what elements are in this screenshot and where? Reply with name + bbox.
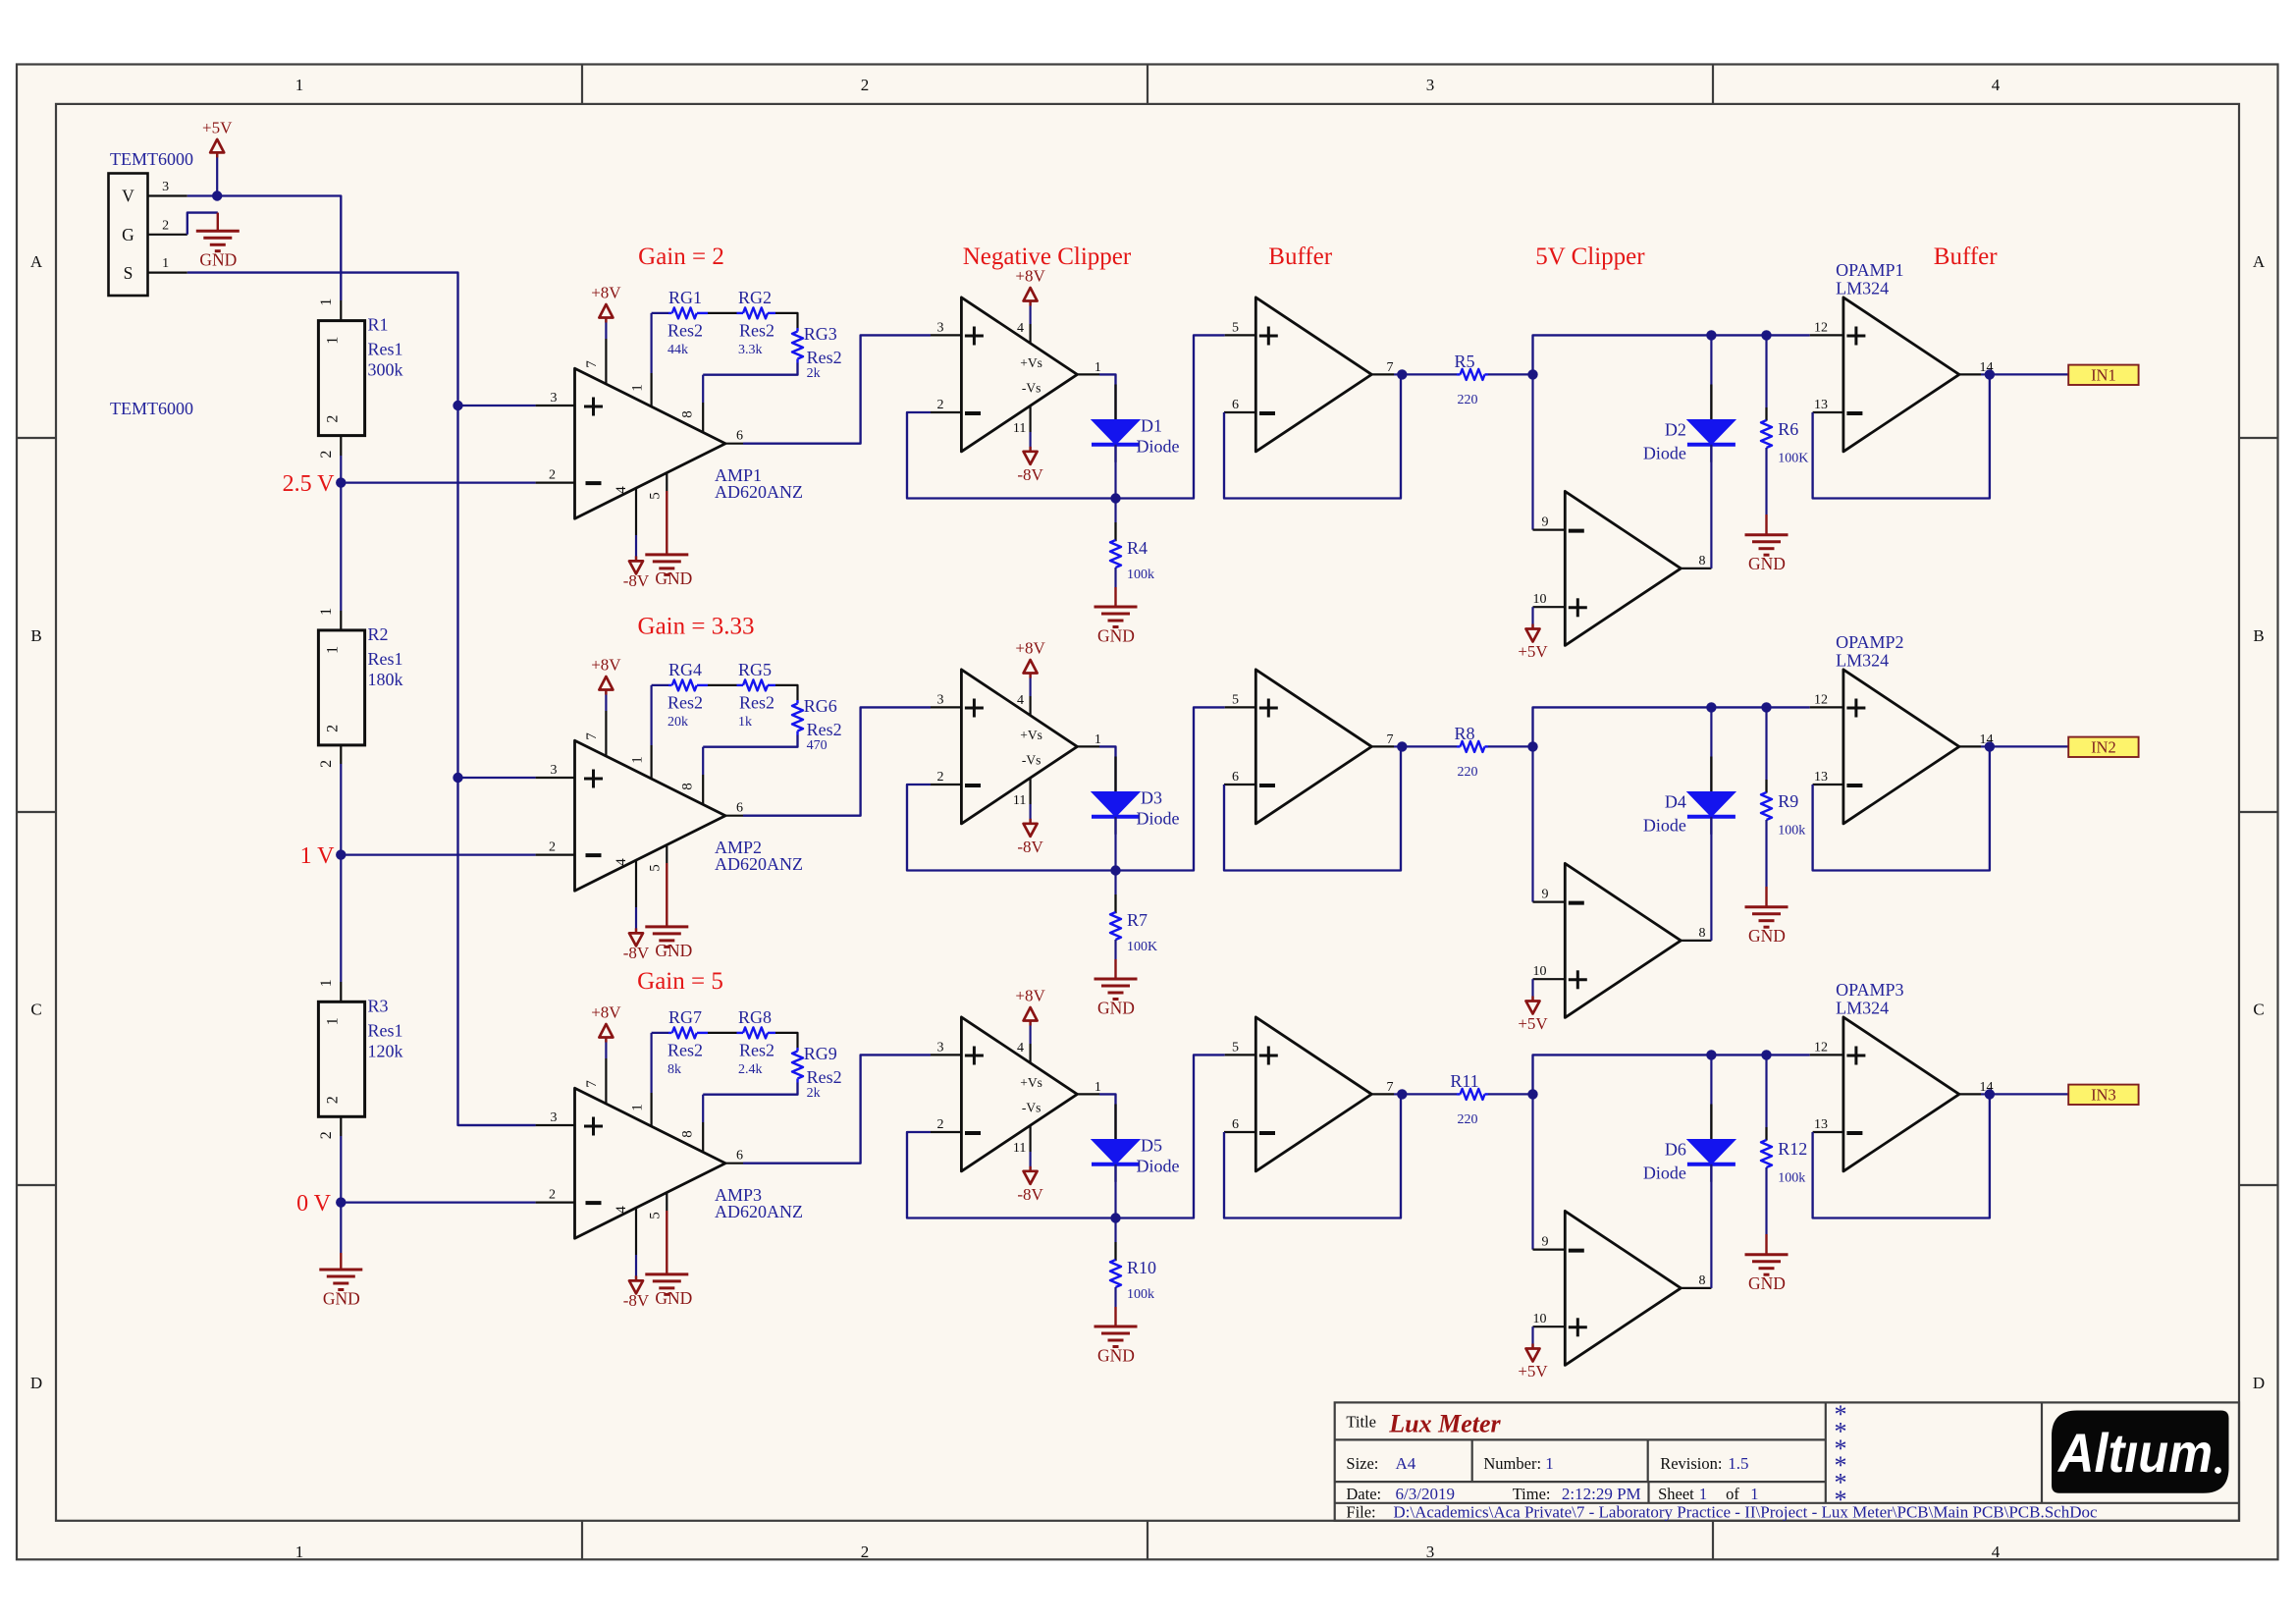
svg-text:4: 4 [1017,693,1024,708]
pin 2 of clipper with feedback [931,1131,961,1133]
svg-text:Res2: Res2 [807,348,842,367]
pin 11 of clipper with -8V [1029,1125,1031,1152]
svg-text:Buffer: Buffer [1268,244,1332,270]
zone column tick 1/2 top [581,65,583,104]
svg-text:R11: R11 [1450,1071,1478,1091]
svg-text:D: D [30,1374,42,1392]
resistor RG3 2k [796,328,798,332]
node 0 V tap [336,1197,346,1207]
svg-text:12: 12 [1814,320,1828,335]
svg-text:D1: D1 [1141,416,1162,436]
resistor R10 100k [1114,1218,1116,1243]
pin 1 of AMP1 [650,373,652,406]
pin 1 of AMP3 [650,1093,652,1126]
pin 10 of 5V clipper with +5V [1533,1326,1566,1327]
svg-text:6: 6 [736,801,743,816]
svg-text:Diode: Diode [1643,816,1686,836]
pin 1 output of clipper [1077,373,1099,375]
svg-text:4: 4 [614,1206,629,1214]
svg-text:+8V: +8V [1015,639,1045,658]
pin 7 of AMP2 with +8V [605,711,607,756]
svg-text:7: 7 [584,732,600,740]
svg-text:GND: GND [655,568,692,588]
svg-text:LM324: LM324 [1836,999,1889,1018]
pin 2 of clipper with feedback [931,411,961,413]
pin 2 of TEMT6000 [148,234,187,236]
svg-text:470: 470 [807,738,828,753]
svg-text:1: 1 [1095,1080,1101,1095]
ground at TEMT6000 [217,213,219,232]
svg-text:2: 2 [937,398,944,412]
diode D4 [1710,707,1712,791]
title block row line 3 [1335,1502,2239,1504]
svg-text:-8V: -8V [1017,838,1043,856]
wire diode to node [1114,445,1116,499]
svg-text:2: 2 [549,840,556,855]
resistor R12 100k [1765,1055,1767,1127]
title block divider number/revision [1647,1439,1649,1482]
svg-text:C: C [2253,1001,2264,1019]
wire S signal bus [187,273,536,1125]
zone column tick 3/4 top [1712,65,1714,104]
svg-text:RG8: RG8 [738,1007,772,1027]
svg-text:2: 2 [937,1117,944,1132]
wire diode to node [1114,817,1116,871]
svg-text:8: 8 [1699,554,1706,568]
svg-text:0 V: 0 V [296,1191,332,1217]
svg-text:1k: 1k [738,715,752,730]
svg-text:+8V: +8V [1015,267,1045,286]
zone row tick C/D right [2239,1184,2278,1186]
ground under R9 [1765,887,1767,907]
wire RG loop top [652,1032,668,1034]
svg-text:1.5: 1.5 [1728,1454,1748,1473]
pin 8 output of 5V clipper [1681,568,1711,569]
pin 4 of AMP2 with -8V [635,860,637,907]
resistor RG8 2.4k [737,1032,744,1034]
svg-text:1: 1 [325,337,342,345]
pin 14 output of OPAMP2 [1959,745,1981,747]
svg-text:RG6: RG6 [804,696,837,716]
op-amp negative clipper row 3 [961,1017,1077,1171]
svg-text:100k: 100k [1127,568,1154,582]
svg-text:1 V: 1 V [300,843,336,869]
svg-text:220: 220 [1458,1112,1478,1127]
svg-text:OPAMP3: OPAMP3 [1836,980,1903,1000]
svg-text:5: 5 [648,1212,664,1219]
svg-text:4: 4 [614,858,629,866]
wire node up and to opamp row 2 [1533,707,1810,746]
svg-text:GND: GND [1748,554,1786,573]
svg-text:IN3: IN3 [2091,1085,2116,1104]
svg-text:3: 3 [162,180,169,194]
svg-text:+5V: +5V [1518,1014,1548,1033]
svg-text:RG4: RG4 [668,660,702,679]
wire to port IN1 [1990,373,2068,375]
power +5V top [216,151,218,195]
svg-text:1: 1 [630,384,646,392]
svg-text:+8V: +8V [591,1003,621,1022]
zone row tick C/D left [17,1184,56,1186]
wire node down to 5V clipper row 3 [1531,1094,1533,1249]
svg-text:-8V: -8V [1017,465,1043,484]
svg-text:13: 13 [1814,398,1828,412]
pin 5 of AMP1 with ground [666,472,667,491]
pin 1 output of clipper [1077,1093,1099,1095]
svg-text:Res2: Res2 [667,1041,703,1060]
op-amp buffer row 1 [1255,298,1371,452]
op-amp buffer row 3 [1255,1017,1371,1171]
node output OPAMP3 [1985,1089,1995,1099]
svg-text:D2: D2 [1665,420,1686,440]
svg-text:2: 2 [318,1131,335,1139]
svg-text:D4: D4 [1665,792,1686,812]
wire node up and to opamp row 1 [1533,335,1810,374]
resistor R9 100k [1765,707,1767,780]
svg-text:R12: R12 [1778,1139,1807,1159]
wire RG bottom to pin 8 [703,1083,797,1095]
svg-text:1: 1 [630,756,646,764]
svg-text:Res1: Res1 [368,340,403,359]
pin 10 of 5V clipper with +5V [1533,978,1566,980]
svg-text:5: 5 [1232,1040,1239,1055]
svg-text:180k: 180k [368,670,403,689]
resistor RG7 8k [668,1032,672,1034]
resistor R1 300k [318,321,364,436]
svg-text:G: G [122,225,134,244]
node S to AMP2 [453,773,462,783]
pin 3 of clipper [931,1054,961,1056]
node top wire to R9 [1761,702,1771,712]
svg-text:13: 13 [1814,770,1828,785]
svg-text:7: 7 [1387,732,1394,747]
svg-text:Altıum: Altıum [2056,1422,2213,1484]
pin 8 output of 5V clipper [1681,940,1711,942]
svg-text:6: 6 [1232,770,1239,785]
svg-text:V: V [122,187,134,206]
svg-text:IN2: IN2 [2091,737,2116,756]
wire tap to AMP3 pin2 [341,1201,535,1203]
svg-text:20k: 20k [667,715,688,730]
wire tap to AMP1 pin2 [341,482,535,484]
svg-text:AD620ANZ: AD620ANZ [715,1202,803,1221]
wire tap1 to R2 [340,483,342,611]
op-amp negative clipper row 2 [961,670,1077,824]
wire to port IN3 [1990,1093,2068,1095]
op-amp OPAMP2 LM324 [1843,670,1959,824]
svg-text:Res2: Res2 [739,693,774,713]
svg-text:5V Clipper: 5V Clipper [1535,244,1645,270]
svg-text:1: 1 [630,1104,646,1111]
svg-text:Gain = 3.33: Gain = 3.33 [638,614,755,640]
svg-text:AD620ANZ: AD620ANZ [715,854,803,874]
svg-text:IN1: IN1 [2091,365,2116,384]
svg-text:AD620ANZ: AD620ANZ [715,482,803,502]
svg-text:Diode: Diode [1137,809,1180,829]
zone column tick 3/4 bottom [1712,1521,1714,1560]
svg-text:2k: 2k [807,1086,821,1101]
node clipper output row 1 [1110,493,1120,503]
svg-text:100k: 100k [1778,824,1805,839]
svg-text:TEMT6000: TEMT6000 [110,399,193,418]
svg-text:11: 11 [1013,1141,1026,1156]
node buffer output row 3 [1397,1089,1407,1099]
svg-text:Res2: Res2 [807,720,842,739]
svg-text:100K: 100K [1778,452,1808,466]
svg-text:-Vs: -Vs [1022,1101,1041,1115]
svg-text:4: 4 [1992,76,2001,94]
title block divider size/number [1471,1439,1473,1482]
svg-text:2:12:29 PM: 2:12:29 PM [1562,1485,1641,1503]
pin 6 output of AMP2 [725,815,743,817]
svg-text:Size:: Size: [1346,1454,1378,1473]
svg-text:1: 1 [162,256,169,271]
pin 8 of AMP3 [702,1122,704,1152]
svg-text:2: 2 [549,1188,556,1203]
pin 6 output of AMP3 [725,1163,743,1164]
pin 14 output of OPAMP3 [1959,1093,1981,1095]
svg-text:R5: R5 [1454,352,1474,371]
svg-text:LM324: LM324 [1836,651,1889,671]
pin 7 output of buffer [1371,1093,1394,1095]
ground at divider bottom [340,1253,342,1270]
svg-text:Lux Meter: Lux Meter [1388,1409,1501,1437]
node top wire to diode D2 [1706,330,1716,340]
svg-text:6: 6 [736,1149,743,1164]
resistor RG9 2k [796,1048,798,1052]
svg-text:13: 13 [1814,1117,1828,1132]
pin 5 of AMP3 with ground [666,1192,667,1211]
wire diode D6 to pin 8 [1710,1164,1712,1288]
pin 5 of buffer [1225,334,1256,336]
wire diode D2 to pin 8 [1710,445,1712,568]
svg-text:File:: File: [1346,1502,1375,1521]
wire S bus to AMP2 pin3 [458,777,536,779]
svg-text:3: 3 [1426,76,1435,94]
wire to port IN2 [1990,745,2068,747]
svg-text:7: 7 [1387,1080,1394,1095]
junction +5V node [212,190,222,200]
svg-text:3: 3 [551,391,558,406]
svg-text:Diode: Diode [1137,1157,1180,1176]
wire node to buffer + row 3 [1116,1055,1225,1218]
svg-text:2: 2 [325,415,342,423]
svg-text:1: 1 [1545,1454,1554,1473]
svg-text:100k: 100k [1778,1171,1805,1186]
pin 4 of AMP3 with -8V [635,1208,637,1255]
pin 13 of OPAMP2 with feedback [1813,784,1843,785]
node after R5 [1527,369,1537,379]
pin 4 of clipper with +8V [1029,1044,1031,1063]
pin 13 of OPAMP1 with feedback [1813,411,1843,413]
svg-text:GND: GND [1097,999,1135,1018]
svg-text:TEMT6000: TEMT6000 [110,149,193,169]
node 2.5 V tap [336,477,346,487]
svg-text:Gain = 5: Gain = 5 [637,968,723,995]
svg-text:Revision:: Revision: [1660,1454,1722,1473]
resistor R3 120k [318,1001,364,1116]
title block frame [1335,1402,2239,1520]
wire tap2 to R3 [340,855,342,982]
svg-text:2: 2 [325,725,342,732]
title block row line 2 [1335,1481,1826,1483]
svg-text:Res1: Res1 [368,649,403,669]
svg-text:OPAMP1: OPAMP1 [1836,260,1903,280]
op-amp negative clipper row 1 [961,298,1077,452]
svg-text:7: 7 [584,360,600,368]
svg-text:3.3k: 3.3k [738,343,763,357]
svg-text:5: 5 [648,864,664,872]
svg-text:120k: 120k [368,1041,403,1060]
diode D1 [1114,385,1116,462]
svg-text:Diode: Diode [1643,444,1686,463]
diode D3 [1114,757,1116,835]
svg-text:1: 1 [325,1017,342,1025]
node clipper output row 2 [1110,865,1120,875]
port IN1 [2068,365,2138,385]
op-amp 5V clipper row 3 [1565,1211,1681,1365]
svg-text:2: 2 [861,76,870,94]
resistor R7 100K [1114,871,1116,895]
svg-text:GND: GND [323,1289,360,1309]
pin 6 output of AMP1 [725,443,743,445]
diode D2 [1710,335,1712,419]
op-amp OPAMP3 LM324 [1843,1017,1959,1171]
svg-text:10: 10 [1533,592,1547,607]
pin 6 of buffer with feedback [1224,784,1255,785]
svg-text:R7: R7 [1127,910,1148,930]
svg-text:D: D [2253,1374,2265,1392]
zone row tick B/C left [17,811,56,813]
svg-text:Time:: Time: [1513,1485,1551,1503]
svg-text:11: 11 [1013,421,1026,436]
pin 5 of buffer [1225,1054,1256,1056]
svg-text:R1: R1 [368,315,389,335]
svg-text:2: 2 [318,451,335,459]
wire G pin to GND [187,213,218,235]
svg-text:6: 6 [1232,398,1239,412]
svg-text:R4: R4 [1127,538,1148,558]
pin 9 of 5V clipper [1533,900,1566,902]
svg-text:D3: D3 [1141,788,1162,808]
resistor R4 100k [1114,499,1116,523]
svg-text:Sheet: Sheet [1658,1485,1694,1503]
ground under R4 [1114,587,1116,607]
node top wire to diode D4 [1706,702,1716,712]
svg-text:RG5: RG5 [738,660,772,679]
svg-text:R10: R10 [1127,1258,1156,1277]
pin 3 of clipper [931,706,961,708]
svg-text:4: 4 [1017,321,1024,336]
resistor RG4 20k [668,684,672,686]
svg-text:6/3/2019: 6/3/2019 [1396,1485,1455,1503]
svg-text:100k: 100k [1127,1287,1154,1302]
svg-text:8: 8 [680,1130,696,1138]
svg-text:2: 2 [549,468,556,483]
svg-text:Date:: Date: [1346,1485,1381,1503]
port IN2 [2068,737,2138,757]
wire diode to node [1114,1164,1116,1218]
pin 9 of 5V clipper [1533,1248,1566,1250]
svg-text:220: 220 [1458,393,1478,407]
svg-text:A4: A4 [1396,1454,1416,1473]
svg-text:R9: R9 [1778,791,1798,811]
op-amp AMP1 AD620ANZ [575,368,726,518]
wire RG corner [775,1033,798,1048]
svg-text:S: S [124,263,133,283]
resistor R8 220 [1402,745,1457,747]
op-amp buffer row 2 [1255,670,1371,824]
resistor R11 220 [1402,1093,1457,1095]
svg-text:100K: 100K [1127,940,1157,954]
svg-text:5: 5 [1232,320,1239,335]
svg-text:GND: GND [1097,626,1135,646]
svg-text:Diode: Diode [1137,437,1180,457]
svg-text:C: C [30,1001,41,1019]
svg-text:1: 1 [325,646,342,654]
pin 12 of OPAMP2 [1810,706,1843,708]
node output OPAMP1 [1985,369,1995,379]
svg-text:-8V: -8V [623,944,650,962]
wire RG corner [775,313,798,328]
diode D5 [1114,1105,1116,1182]
wire between RG a/b [708,1032,737,1034]
title block divider stars column [1825,1402,1827,1502]
port IN3 [2068,1085,2138,1105]
ground under R6 [1765,514,1767,535]
svg-text:+5V: +5V [1518,1362,1548,1380]
svg-text:GND: GND [1097,1346,1135,1366]
zone column tick 2/3 bottom [1147,1521,1148,1560]
svg-text:LM324: LM324 [1836,279,1889,298]
pin 4 of AMP1 with -8V [635,488,637,535]
svg-text:3: 3 [937,692,944,707]
svg-text:7: 7 [584,1080,600,1088]
svg-text:Res2: Res2 [667,321,703,341]
zone row tick A/B right [2239,437,2278,439]
resistor RG6 470 [796,700,798,704]
ground under R12 [1765,1234,1767,1255]
pin 8 output of 5V clipper [1681,1287,1711,1289]
svg-text:GND: GND [1748,926,1786,946]
svg-text:of: of [1726,1485,1739,1503]
svg-text:A: A [2253,252,2266,271]
svg-text:11: 11 [1013,793,1026,808]
svg-text:4: 4 [1992,1543,2001,1561]
svg-text:RG9: RG9 [804,1044,837,1063]
pin 4 of clipper with +8V [1029,696,1031,716]
svg-text:B: B [30,626,41,645]
svg-text:GND: GND [655,1288,692,1308]
node after R11 [1527,1089,1537,1099]
pin 3 of TEMT6000 [148,194,187,196]
svg-text:RG1: RG1 [668,288,702,307]
resistor RG1 44k [668,312,672,314]
resistor RG2 3.3k [737,312,744,314]
zone row tick A/B left [17,437,56,439]
svg-text:1: 1 [318,979,335,987]
pin 12 of OPAMP1 [1810,334,1843,336]
wire node to buffer + row 1 [1116,335,1225,498]
svg-text:+8V: +8V [591,656,621,675]
svg-text:GND: GND [655,941,692,960]
pin 6 of buffer with feedback [1224,411,1255,413]
svg-text:7: 7 [1387,360,1394,375]
svg-text:2: 2 [937,770,944,785]
node after R8 [1527,741,1537,751]
svg-text:2: 2 [318,760,335,768]
svg-text:2: 2 [861,1543,870,1561]
